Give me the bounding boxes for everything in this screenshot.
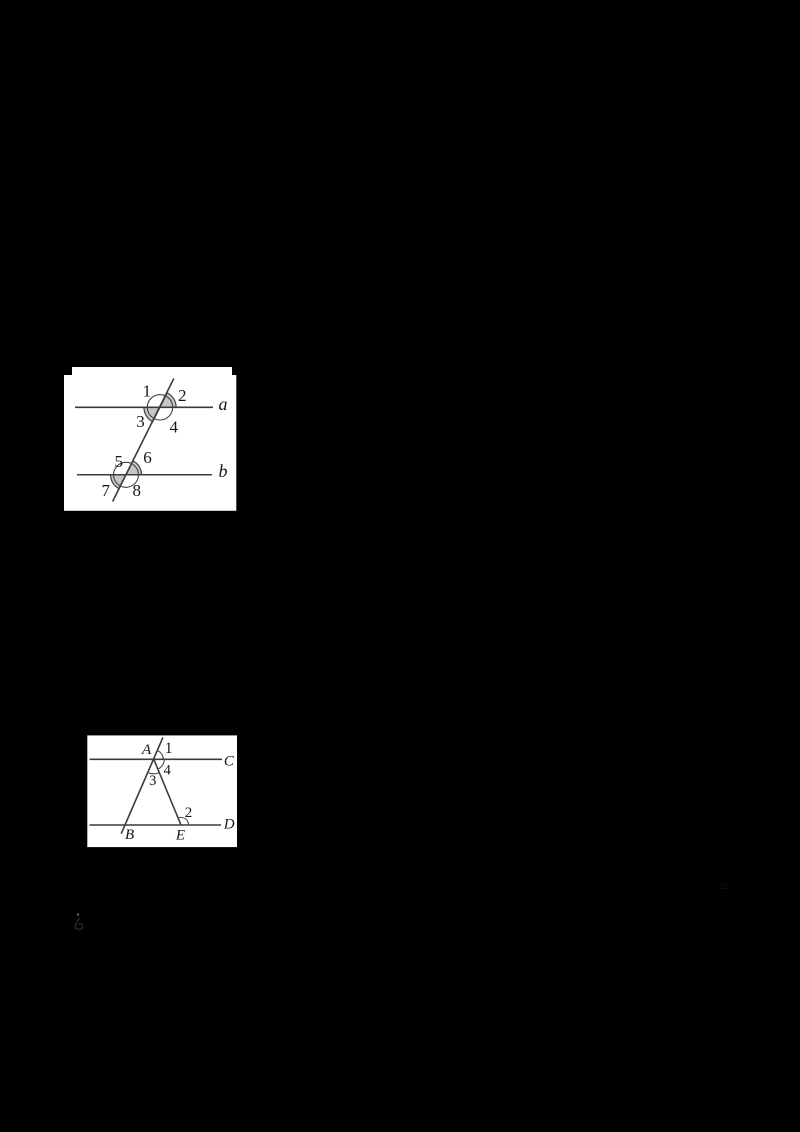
svg-text:8: 8 <box>133 481 142 500</box>
svg-text:3: 3 <box>136 412 145 431</box>
svg-text:4: 4 <box>170 417 179 436</box>
svg-text:7: 7 <box>102 481 111 500</box>
shaded sector angle 7 <box>111 475 127 489</box>
circle at upper intersection <box>147 395 172 420</box>
svg-text:A: A <box>141 742 152 758</box>
line a <box>75 406 213 408</box>
svg-text:5: 5 <box>115 452 124 471</box>
line b <box>77 474 212 476</box>
angle 1 arc at A <box>158 751 164 760</box>
svg-text:4: 4 <box>164 762 172 778</box>
svg-text:12: 12 <box>719 882 728 891</box>
line BD <box>90 824 222 826</box>
figure 2 white panel <box>87 735 237 847</box>
svg-text:a: a <box>219 394 228 414</box>
svg-text:1: 1 <box>143 381 152 400</box>
svg-text:B: B <box>125 827 134 843</box>
figure 1 white panel main <box>64 375 236 511</box>
svg-text:E: E <box>175 827 185 843</box>
svg-text:6: 6 <box>143 448 152 467</box>
svg-text:3: 3 <box>149 773 156 789</box>
svg-text:b: b <box>219 461 228 481</box>
line AB <box>121 738 163 834</box>
line AE <box>154 759 181 825</box>
angle 4 arc at A <box>158 759 164 769</box>
faint mark bottom left dot <box>77 914 79 916</box>
figure 1 white panel top strip <box>72 367 232 376</box>
shaded sector angle 6 <box>126 461 142 475</box>
svg-text:1: 1 <box>165 740 173 757</box>
svg-text:2: 2 <box>178 386 187 405</box>
line AC <box>90 758 223 760</box>
circle at lower intersection <box>114 462 139 487</box>
angle 3 arc at A <box>148 773 159 774</box>
svg-text:C: C <box>224 753 235 769</box>
angle 2 arc at E <box>178 817 189 825</box>
svg-text:2: 2 <box>185 805 193 821</box>
faint mark bottom left curve <box>75 918 82 930</box>
svg-text:D: D <box>223 817 235 833</box>
transversal <box>113 379 174 502</box>
shaded sector angle 3 <box>144 407 160 421</box>
shaded sector angle 2 <box>160 393 176 407</box>
